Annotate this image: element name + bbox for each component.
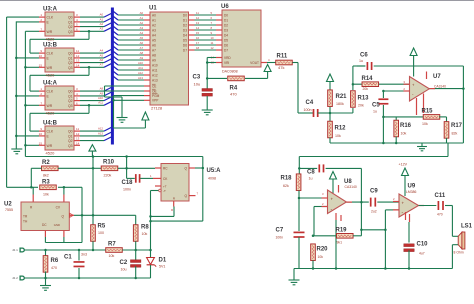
svg-text:A1: A1	[152, 18, 156, 22]
svg-text:A0: A0	[100, 13, 104, 17]
svg-text:R7: R7	[108, 242, 116, 248]
svg-text:+T: +T	[163, 185, 167, 189]
svg-text:14: 14	[76, 63, 80, 67]
svg-text:LS1: LS1	[461, 224, 473, 230]
svg-text:D0: D0	[183, 13, 187, 17]
svg-text:82k: 82k	[452, 132, 458, 136]
svg-text:4520: 4520	[46, 37, 56, 42]
svg-text:U3:B: U3:B	[43, 43, 58, 49]
svg-text:15: 15	[39, 63, 43, 67]
svg-text:A4: A4	[100, 49, 104, 53]
svg-text:R20: R20	[317, 247, 329, 253]
svg-text:C11: C11	[435, 193, 446, 199]
svg-text:Q2: Q2	[68, 25, 73, 29]
svg-text:TH: TH	[23, 220, 28, 224]
svg-text:C10: C10	[417, 242, 429, 248]
svg-text:D4: D4	[183, 33, 187, 37]
svg-text:D3: D3	[183, 28, 187, 32]
svg-text:14: 14	[76, 141, 80, 145]
svg-text:Q1: Q1	[68, 20, 73, 24]
svg-text:4098: 4098	[208, 177, 216, 181]
svg-text:VPP: VPP	[152, 99, 158, 103]
svg-text:7555: 7555	[5, 208, 13, 212]
svg-text:10k: 10k	[318, 255, 324, 259]
svg-text:PGM: PGM	[152, 94, 160, 98]
svg-text:A6: A6	[100, 58, 104, 62]
svg-text:Q2: Q2	[68, 139, 73, 143]
svg-text:A4: A4	[152, 33, 156, 37]
svg-text:U4:A: U4:A	[43, 81, 58, 87]
svg-text:WR: WR	[47, 66, 53, 70]
svg-text:D6: D6	[224, 43, 228, 47]
svg-text:R5: R5	[98, 224, 106, 230]
svg-text:A7: A7	[140, 46, 144, 50]
svg-text:U4:B: U4:B	[43, 121, 58, 127]
svg-text:U5:A: U5:A	[207, 168, 222, 174]
svg-text:A1: A1	[140, 16, 144, 20]
svg-text:CA3140: CA3140	[434, 85, 446, 89]
svg-text:A1: A1	[100, 17, 104, 21]
svg-text:A0: A0	[140, 11, 144, 15]
svg-text:A3: A3	[152, 28, 156, 32]
svg-text:WR: WR	[47, 30, 53, 34]
svg-text:A10: A10	[98, 96, 103, 100]
svg-text:8 Ohm: 8 Ohm	[454, 251, 464, 255]
svg-text:Q0: Q0	[68, 130, 73, 134]
svg-text:100n: 100n	[276, 236, 284, 240]
svg-text:D2: D2	[183, 23, 187, 27]
svg-text:R11: R11	[277, 54, 288, 60]
svg-text:A11: A11	[138, 66, 143, 70]
svg-text:220k: 220k	[104, 173, 112, 177]
svg-text:180k: 180k	[336, 102, 344, 106]
svg-text:100n: 100n	[123, 188, 131, 192]
svg-text:D2: D2	[224, 23, 228, 27]
svg-text:4520: 4520	[46, 111, 56, 116]
svg-text:-T: -T	[163, 189, 166, 193]
svg-text:DC: DC	[42, 223, 47, 227]
svg-text:A4: A4	[140, 31, 144, 35]
svg-text:14: 14	[196, 26, 200, 30]
svg-text:A12: A12	[98, 127, 103, 131]
svg-text:20k: 20k	[358, 104, 364, 108]
svg-text:CLK: CLK	[47, 130, 54, 134]
svg-text:U9: U9	[408, 184, 416, 190]
svg-text:Q1: Q1	[68, 56, 73, 60]
svg-text:CLK: CLK	[47, 16, 54, 20]
svg-text:A13: A13	[98, 131, 103, 135]
svg-text:A5: A5	[100, 53, 104, 57]
svg-text:10k: 10k	[422, 122, 428, 126]
svg-text:D5: D5	[183, 38, 187, 42]
svg-text:R17: R17	[451, 123, 463, 129]
svg-text:10k: 10k	[142, 232, 148, 236]
svg-text:15: 15	[196, 31, 200, 35]
svg-text:R3: R3	[42, 180, 50, 186]
svg-text:D4: D4	[224, 33, 228, 37]
svg-text:C6: C6	[360, 53, 368, 59]
svg-text:U6: U6	[221, 4, 229, 10]
svg-text:470: 470	[51, 266, 57, 270]
svg-text:CE: CE	[152, 84, 156, 88]
svg-text:A3: A3	[140, 26, 144, 30]
svg-text:11: 11	[196, 11, 199, 15]
svg-text:R10: R10	[103, 159, 115, 165]
svg-text:U1: U1	[149, 6, 157, 12]
svg-text:R2: R2	[42, 160, 50, 166]
svg-text:10k: 10k	[401, 132, 407, 136]
svg-text:C8: C8	[307, 170, 315, 176]
svg-text:Q3: Q3	[68, 66, 73, 70]
svg-text:Q1: Q1	[68, 94, 73, 98]
svg-text:18: 18	[196, 46, 200, 50]
svg-text:1u: 1u	[309, 177, 313, 181]
svg-text:WR: WR	[47, 144, 53, 148]
svg-text:13: 13	[76, 137, 80, 141]
svg-text:C2: C2	[120, 260, 128, 266]
svg-text:A9: A9	[100, 91, 104, 95]
svg-text:+: +	[402, 201, 405, 206]
svg-text:A2: A2	[152, 23, 156, 27]
svg-text:11: 11	[76, 127, 79, 131]
svg-text:8k2: 8k2	[43, 174, 49, 178]
svg-text:A12: A12	[152, 73, 158, 77]
svg-text:A2: A2	[100, 22, 104, 26]
svg-text:R6: R6	[51, 258, 59, 264]
svg-text:A13: A13	[152, 78, 158, 82]
svg-text:A10: A10	[138, 61, 143, 65]
svg-text:Q3: Q3	[68, 30, 73, 34]
svg-text:R19: R19	[336, 227, 348, 233]
svg-text:10k: 10k	[335, 134, 341, 138]
svg-text:A7: A7	[152, 48, 156, 52]
svg-text:U3:A: U3:A	[43, 7, 58, 13]
svg-text:15: 15	[39, 141, 43, 145]
svg-text:A11: A11	[98, 101, 103, 105]
svg-text:A9: A9	[140, 56, 144, 60]
svg-text:100: 100	[98, 231, 104, 235]
svg-text:D1: D1	[224, 18, 228, 22]
svg-text:D1: D1	[183, 18, 187, 22]
svg-text:LM386: LM386	[406, 190, 416, 194]
svg-text:Q1: Q1	[68, 134, 73, 138]
svg-text:C5: C5	[372, 103, 380, 109]
svg-text:R8: R8	[141, 225, 149, 231]
svg-text:1u: 1u	[373, 110, 377, 114]
svg-text:D1: D1	[159, 258, 167, 264]
svg-text:16: 16	[196, 36, 200, 40]
svg-text:A5: A5	[140, 36, 144, 40]
svg-text:VRD: VRD	[224, 56, 231, 60]
svg-text:VOUT: VOUT	[250, 61, 259, 65]
svg-text:C1: C1	[64, 255, 72, 261]
svg-text:+: +	[331, 197, 334, 202]
svg-text:A10: A10	[152, 63, 158, 67]
svg-text:4520: 4520	[46, 151, 56, 156]
svg-text:17: 17	[196, 41, 200, 45]
svg-text:A6: A6	[152, 43, 156, 47]
svg-text:13: 13	[196, 21, 200, 25]
svg-text:D5: D5	[224, 38, 228, 42]
svg-text:12: 12	[196, 16, 200, 20]
svg-text:R21: R21	[336, 94, 348, 100]
svg-text:C4: C4	[306, 100, 314, 106]
svg-text:Q2: Q2	[68, 99, 73, 103]
svg-text:4520: 4520	[46, 73, 56, 78]
svg-text:Q3: Q3	[68, 144, 73, 148]
svg-text:A2: A2	[140, 21, 144, 25]
svg-text:62k: 62k	[283, 184, 289, 188]
svg-text:10: 10	[39, 132, 43, 136]
svg-text:A3: A3	[100, 27, 104, 31]
svg-text:A8: A8	[140, 51, 144, 55]
svg-text:C7: C7	[276, 228, 284, 234]
svg-text:5V1: 5V1	[159, 265, 165, 269]
svg-text:27128: 27128	[151, 106, 163, 111]
svg-text:D3: D3	[224, 28, 228, 32]
svg-text:10: 10	[39, 54, 43, 58]
svg-text:10: 10	[211, 36, 215, 40]
svg-text:1u: 1u	[359, 59, 363, 63]
svg-text:A11: A11	[152, 68, 158, 72]
svg-text:TR: TR	[23, 215, 28, 219]
svg-text:A6: A6	[140, 41, 144, 45]
svg-text:D7: D7	[183, 48, 187, 52]
svg-text:DAC0808: DAC0808	[222, 70, 238, 74]
svg-text:U7: U7	[433, 74, 441, 80]
svg-text:12: 12	[76, 54, 80, 58]
svg-text:4u7: 4u7	[419, 252, 425, 256]
svg-text:C9: C9	[370, 189, 378, 195]
svg-text:WR: WR	[47, 104, 53, 108]
svg-text:U2: U2	[4, 202, 12, 208]
svg-text:470: 470	[230, 92, 237, 97]
svg-text:Q3: Q3	[68, 104, 73, 108]
svg-text:VRI: VRI	[224, 61, 229, 65]
svg-text:9k1: 9k1	[337, 241, 343, 245]
svg-text:C3: C3	[193, 75, 201, 81]
svg-text:10k: 10k	[43, 193, 49, 197]
svg-text:CA3140: CA3140	[345, 185, 357, 189]
svg-text:3n3: 3n3	[81, 253, 87, 257]
svg-text:Q0: Q0	[68, 90, 73, 94]
svg-text:J2.2: J2.2	[12, 276, 18, 280]
svg-text:10u: 10u	[194, 82, 201, 87]
svg-text:A5: A5	[152, 38, 156, 42]
svg-text:R16: R16	[400, 123, 412, 129]
svg-text:470: 470	[437, 213, 443, 217]
svg-text:A7: A7	[100, 63, 104, 67]
svg-text:Q0: Q0	[68, 16, 73, 20]
svg-text:Q2: Q2	[68, 61, 73, 65]
svg-text:R12: R12	[335, 126, 347, 132]
svg-text:CLK: CLK	[47, 52, 54, 56]
svg-text:RC: RC	[163, 167, 168, 171]
svg-text:10k: 10k	[109, 254, 115, 258]
svg-text:Q0: Q0	[68, 52, 73, 56]
svg-text:2u2: 2u2	[371, 210, 377, 214]
svg-text:J2.1: J2.1	[12, 248, 18, 252]
svg-text:D7: D7	[224, 48, 228, 52]
svg-text:11: 11	[211, 41, 214, 45]
svg-text:12: 12	[211, 46, 215, 50]
svg-text:A8: A8	[100, 87, 104, 91]
svg-text:OE: OE	[152, 89, 157, 93]
svg-text:20k: 20k	[363, 87, 369, 91]
svg-text:CLK: CLK	[47, 90, 54, 94]
svg-text:+12V: +12V	[399, 163, 408, 167]
svg-text:47k: 47k	[278, 65, 284, 70]
svg-text:R18: R18	[281, 176, 293, 182]
svg-text:13: 13	[76, 59, 80, 63]
svg-text:A0: A0	[152, 13, 156, 17]
svg-text:D0: D0	[224, 13, 228, 17]
svg-text:10u: 10u	[121, 268, 127, 272]
svg-text:R15: R15	[422, 109, 434, 115]
svg-text:A13: A13	[138, 76, 143, 80]
svg-text:R14: R14	[362, 76, 374, 82]
svg-text:11: 11	[76, 49, 79, 53]
svg-text:A9: A9	[152, 58, 156, 62]
svg-text:A12: A12	[138, 71, 143, 75]
svg-text:C18: C18	[122, 180, 134, 186]
svg-text:D6: D6	[183, 43, 187, 47]
svg-text:R13: R13	[358, 96, 370, 102]
svg-text:100n: 100n	[304, 108, 312, 112]
svg-text:A8: A8	[152, 53, 156, 57]
svg-text:GND: GND	[54, 223, 60, 227]
svg-text:12: 12	[76, 132, 80, 136]
